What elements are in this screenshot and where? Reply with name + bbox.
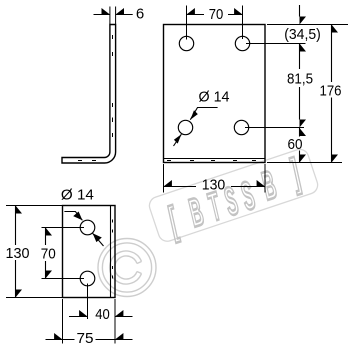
diameter 14 opposite arrow bottom: [93, 233, 104, 246]
bottom view bend strip dashes: [112, 220, 114, 279]
dimension 6 extension lines: [110, 7, 116, 25]
dimension 130 front extension lines: [164, 164, 266, 193]
front view plate outline: [164, 25, 266, 163]
dimension 130 bottom extension lines: [6, 206, 62, 298]
dimension 75 line and arrows: [46, 339, 133, 341]
diameter 14 opposite arrow front: [174, 134, 182, 146]
dimension 130 bottom line: [15, 206, 17, 298]
svg-text:Ø 14: Ø 14: [199, 88, 230, 105]
svg-text:70: 70: [41, 245, 56, 262]
side view center line dashes (foot): [78, 160, 96, 162]
svg-text:B: B: [184, 190, 209, 236]
bottom view hole lower: [80, 271, 95, 286]
dimension 130 front line: [164, 186, 266, 188]
dimension 81,5 line: [299, 44, 301, 120]
svg-text:75: 75: [77, 330, 94, 347]
dimension 70 extension lines: [187, 6, 243, 40]
bottom view plate outline: [63, 206, 116, 298]
bottom view bend line: [110, 206, 112, 298]
bottom view lower extension lines: [63, 299, 116, 344]
svg-text:40: 40: [95, 306, 110, 323]
svg-text:60: 60: [288, 136, 303, 153]
dimension 70 bottom arrows: [46, 228, 53, 279]
front view bend line: [164, 158, 266, 160]
hole center line extension: [87, 284, 89, 320]
svg-text:6: 6: [136, 5, 144, 22]
dimension (34,5) arrow below / start of 81,5: [300, 44, 307, 52]
svg-text:(34,5): (34,5): [284, 26, 321, 43]
hole top-right: [235, 36, 249, 50]
watermark copyright symbol: [98, 239, 156, 297]
dimension 40 line and arrows: [69, 316, 133, 318]
row1 extension line right: [246, 43, 306, 45]
dimension 130 bottom arrows: [16, 206, 23, 298]
svg-text:176: 176: [320, 82, 342, 99]
top edge extension line right: [267, 24, 348, 26]
side view L-profile outline: [62, 25, 116, 164]
dimension 60 arrows: [300, 128, 307, 163]
dimension 176 line: [331, 25, 333, 163]
dimension 70 arrows: [187, 8, 243, 15]
dimension 6 line and arrows: [94, 14, 133, 16]
hole bottom-right: [234, 120, 248, 134]
hole top-left: [179, 36, 193, 50]
dimension 70 bottom extension lines: [42, 228, 85, 279]
svg-text:81,5: 81,5: [287, 70, 313, 87]
diameter 14 leader front: [190, 108, 217, 120]
svg-text:130: 130: [202, 177, 226, 194]
svg-text:Ø 14: Ø 14: [61, 186, 94, 203]
dimension 70 bottom line: [45, 228, 47, 279]
dimension 176 arrows: [332, 25, 339, 163]
front view bend strip dashes: [167, 160, 256, 162]
svg-text:70: 70: [209, 6, 224, 23]
hole bottom-left: [178, 120, 192, 134]
watermark text: [162, 149, 306, 243]
row2 extension line right: [245, 127, 304, 129]
dimension 130 front arrows: [164, 180, 266, 187]
side view center line dashes (vertical leg): [112, 35, 114, 137]
bottom view hole upper: [80, 220, 95, 235]
dimension 81,5 end arrow: [300, 120, 307, 128]
svg-text:130: 130: [6, 245, 30, 262]
bottom edge extension line right: [267, 162, 342, 164]
watermark border box: [147, 147, 320, 244]
dimension 60 line: [299, 128, 301, 163]
dimension 70 line: [187, 14, 243, 16]
diameter 14 leader bottom: [64, 212, 82, 221]
dimension (34,5) arrow above: [299, 5, 301, 17]
